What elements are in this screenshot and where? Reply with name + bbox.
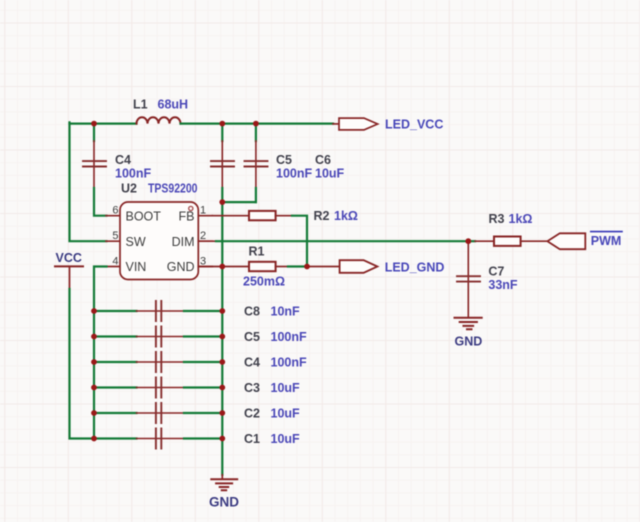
C2 labels [244,407,300,421]
svg-text:SW: SW [126,235,146,249]
svg-text:VIN: VIN [126,260,147,274]
wire top rail right (LED_VCC node) [181,122,340,125]
resistor R2 [249,211,292,220]
capacitor C6 [245,124,268,203]
C1 labels [244,432,300,446]
wire right capacitor rail [221,267,223,475]
PWM flag [547,233,585,249]
svg-text:68uH: 68uH [158,98,189,112]
svg-text:LED_VCC: LED_VCC [385,118,443,132]
L1 value labels [133,98,188,112]
svg-text:250mΩ: 250mΩ [243,275,285,289]
svg-text:100nF: 100nF [115,167,151,181]
wire top rail left (SW node) [70,122,137,124]
resistor R3 [494,237,547,246]
capacitor C1 (bank row 6) [94,429,222,449]
U2 reference labels [121,182,198,196]
wire VIN pin corner to left rail [94,267,107,312]
resistor R1 [249,262,307,271]
C5 row labels [244,330,307,344]
node junctions C4 row [91,359,225,365]
node junctions C8 [91,308,225,314]
svg-text:DIM: DIM [172,235,195,249]
wire DIM pin to PWM node [198,240,468,242]
capacitor C3 (bank row 4) [94,378,222,398]
power flag VCC [55,266,83,289]
C4 labels [115,153,151,181]
svg-text:100nF: 100nF [271,330,307,344]
node junctions C3 row [91,385,225,391]
svg-text:33nF: 33nF [488,278,518,292]
svg-text:LED_GND: LED_GND [385,261,445,275]
svg-text:R1: R1 [249,245,265,259]
R2 value label [314,209,358,223]
svg-text:C5: C5 [276,153,292,167]
svg-text:100nF: 100nF [276,167,312,181]
capacitor C2 (bank row 5) [94,403,222,423]
svg-text:2: 2 [200,230,206,242]
LED_GND flag [340,260,378,273]
svg-text:1kΩ: 1kΩ [334,209,358,223]
svg-text:GND: GND [209,495,239,510]
wire GND pin to junction [198,266,222,268]
svg-text:5: 5 [112,230,118,242]
node junctions C1 row [91,436,225,442]
node junction C5/top rail [219,121,225,127]
svg-text:C4: C4 [244,356,260,370]
wire rail tail to ground [221,475,223,479]
svg-text:3: 3 [200,255,206,267]
C6 labels [315,153,345,181]
GND label (C7) [455,335,483,349]
LED_VCC flag [339,118,378,130]
wire VCC down to C1 row [70,289,95,439]
U2 pin names and numbers [112,205,206,275]
op-amp U2 (TPS92200 IC body) [106,202,212,280]
net LED_VCC label [385,118,443,132]
svg-text:1: 1 [200,205,206,217]
wire junction to R3 [468,240,494,242]
capacitor C5 (bank row 2) [94,327,222,347]
svg-text:C7: C7 [488,264,504,278]
svg-text:10uF: 10uF [271,381,301,395]
svg-text:10uF: 10uF [271,432,301,446]
C7 labels [488,264,518,292]
svg-text:C6: C6 [315,153,331,167]
R1 labels [243,245,285,289]
wire left capacitor rail [93,311,95,439]
capacitor C4 (bank row 3) [94,352,222,372]
node junction R1/R2/LED_GND [304,264,310,270]
net LED_GND label [385,261,445,275]
node junction C6/top rail [253,121,259,127]
wire C6 bottom to C5 bottom [222,201,256,203]
svg-text:C2: C2 [244,407,260,421]
svg-text:VCC: VCC [56,251,82,265]
node junctions C2 row [91,410,225,416]
C8 labels [244,305,300,319]
capacitor C5 [211,124,234,203]
svg-text:R3: R3 [489,212,505,226]
C5 labels [276,153,312,181]
ground symbol (C7) [455,318,482,329]
svg-text:BOOT: BOOT [126,209,162,223]
wire left drop to SW pin [70,122,107,241]
svg-text:100nF: 100nF [271,356,307,370]
svg-text:1kΩ: 1kΩ [509,212,533,226]
svg-text:10uF: 10uF [315,167,345,181]
node junction C5/C6 bottom [219,199,225,205]
svg-text:6: 6 [112,205,118,217]
VCC label [56,251,82,265]
node junctions C5 row [91,334,225,340]
svg-text:FB: FB [179,209,195,223]
capacitor C8 (bank row 1) [94,301,222,321]
C3 labels [244,381,300,395]
node junction DIM/R3/C7 [465,238,471,244]
wire junction to R1 [222,266,249,268]
svg-text:C3: C3 [244,381,260,395]
wire vertical C5 bottom to GND pin node [221,202,223,266]
C4 row labels [244,356,307,370]
wire R2 right down to R1 node [292,216,307,267]
node junction C4/top rail [91,121,97,127]
wire FB pin to R2 [212,215,249,217]
svg-text:10nF: 10nF [271,305,301,319]
svg-text:C4: C4 [115,153,131,167]
wire junction to LED_GND flag [307,266,340,268]
GND label (bottom) [209,495,239,510]
svg-text:U2: U2 [121,182,137,196]
ground symbol (bottom) [211,479,237,490]
capacitor C7 [457,241,480,317]
net PWM label (active low overline) [591,232,622,248]
svg-text:GND: GND [455,335,483,349]
svg-text:GND: GND [167,260,195,274]
svg-text:10uF: 10uF [271,407,301,421]
svg-text:R2: R2 [314,209,330,223]
svg-text:PWM: PWM [591,234,622,248]
svg-text:C8: C8 [244,305,260,319]
inductor L1 [137,117,181,123]
R3 value label [489,212,533,226]
capacitor C4 [83,124,107,216]
svg-text:TPS92200: TPS92200 [148,182,198,196]
svg-text:C5: C5 [244,330,260,344]
node junction GND pin / R1 [219,264,225,270]
svg-text:L1: L1 [133,98,148,112]
svg-text:C1: C1 [244,432,260,446]
svg-text:4: 4 [112,255,118,267]
